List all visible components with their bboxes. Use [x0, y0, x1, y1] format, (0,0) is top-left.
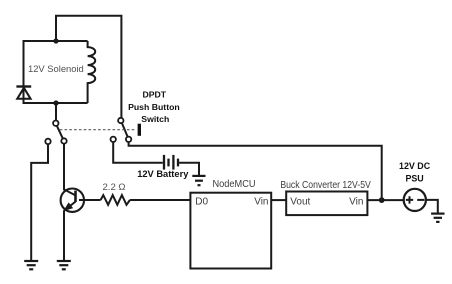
wire base to resistor	[79, 199, 101, 201]
transistor Q1	[61, 189, 84, 212]
wire right throw B to PSU junction	[129, 142, 382, 198]
wire buck Vin to PSU	[367, 199, 403, 201]
switch S1 left pole common contact	[53, 121, 58, 126]
switch S1 right pole throw B contact	[126, 137, 131, 142]
wire battery minus to ground	[179, 163, 199, 175]
svg-text:Vin: Vin	[349, 196, 363, 207]
wire right throw A to battery	[113, 142, 163, 163]
svg-text:NodeMCU: NodeMCU	[213, 179, 256, 190]
node junction at PSU	[379, 197, 385, 203]
svg-text:PSU: PSU	[405, 174, 423, 184]
ground G3 battery	[192, 176, 205, 185]
switch S1 left pole lever	[57, 126, 63, 139]
wire PSU to ground	[426, 200, 438, 213]
wire top from solenoid to switch right pole	[56, 16, 121, 118]
diode D1 flyback	[16, 87, 31, 99]
svg-text:Push Button: Push Button	[128, 102, 180, 112]
resistor R1 2.2 ohm	[101, 195, 130, 205]
svg-text:Buck Converter 12V-5V: Buck Converter 12V-5V	[280, 180, 371, 191]
node top of solenoid	[53, 38, 58, 43]
wire left throw A to ground	[31, 144, 48, 260]
push button actuator bar	[138, 124, 141, 136]
ground G4 PSU	[431, 214, 444, 222]
svg-text:12V Solenoid: 12V Solenoid	[28, 63, 84, 74]
svg-text:Vin: Vin	[254, 196, 268, 207]
ground G2	[57, 261, 71, 269]
wire solenoid bottom to switch left common	[55, 103, 57, 120]
svg-text:DPDT: DPDT	[142, 90, 166, 100]
switch S1 right pole common contact	[118, 118, 123, 123]
svg-text:D0: D0	[195, 196, 208, 207]
svg-text:2.2 Ω: 2.2 Ω	[103, 182, 126, 193]
switch S1 right pole lever	[122, 123, 128, 137]
wire emitter to ground	[63, 210, 65, 260]
buck converter U2 box	[286, 192, 367, 216]
label 12V DC PSU	[399, 161, 431, 183]
ground G1	[24, 261, 38, 269]
switch mechanical link dashed	[60, 129, 136, 131]
wire left throw B to transistor collector	[63, 144, 65, 191]
PSU source V1	[404, 189, 426, 211]
wire NodeMCU Vin to buck Vout	[271, 199, 286, 201]
svg-text:Vout: Vout	[290, 196, 310, 207]
switch S1 right pole throw A contact	[111, 137, 116, 142]
label DPDT Push Button Switch	[128, 90, 180, 125]
solenoid L1 box 12V Solenoid	[24, 41, 88, 103]
svg-text:Switch: Switch	[141, 114, 169, 124]
battery BT1	[164, 155, 178, 170]
NodeMCU U1 box	[190, 193, 271, 269]
inductor coil of solenoid	[88, 41, 96, 103]
node bottom of solenoid	[53, 100, 58, 105]
wire resistor to NodeMCU D0	[130, 199, 191, 201]
svg-text:12V DC: 12V DC	[399, 161, 431, 171]
svg-text:12V Battery: 12V Battery	[137, 169, 189, 179]
switch S1 left pole throw A contact	[45, 139, 50, 144]
switch S1 left pole throw B contact	[61, 138, 66, 143]
